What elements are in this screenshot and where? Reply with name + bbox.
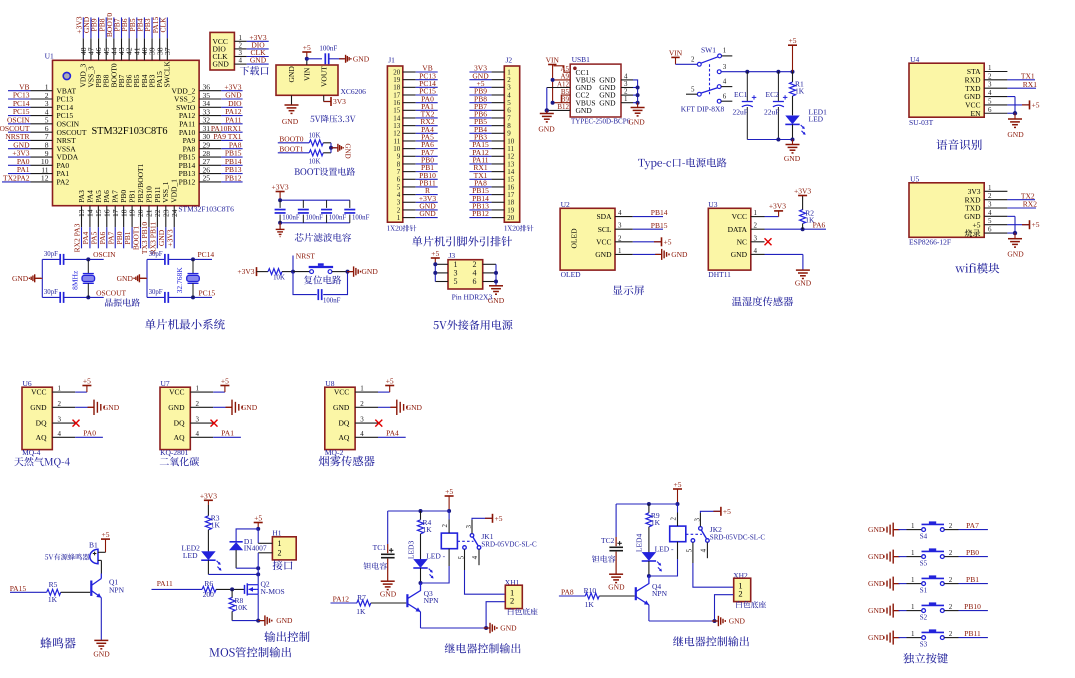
pin 20 of J1 xyxy=(393,68,415,76)
svg-text:MQ-4: MQ-4 xyxy=(22,448,41,457)
ground (U6) xyxy=(75,400,120,415)
crystal 32.768K xyxy=(175,259,199,297)
wire / net label PA12 xyxy=(221,107,242,116)
svg-text:10K: 10K xyxy=(235,603,249,612)
wire / net labels TX2 PA2 (pin 12) xyxy=(2,173,31,182)
svg-text:1K: 1K xyxy=(805,215,815,224)
wire / net label +5 xyxy=(469,79,491,88)
pin VOUT wire to 3V3 xyxy=(324,95,331,101)
svg-text:6: 6 xyxy=(723,92,727,100)
sensor U6 MQ-4 xyxy=(22,379,52,457)
svg-text:VIN: VIN xyxy=(546,56,560,65)
wire / net label RX2 xyxy=(416,117,438,126)
svg-text:+5: +5 xyxy=(221,377,229,386)
wire / net label 3V3 xyxy=(469,64,491,73)
wire emitter to ground (relay 1) xyxy=(421,612,488,628)
wire / net label PB0 xyxy=(944,548,988,557)
pin 13 of J1 xyxy=(393,122,415,130)
ground (key S4) xyxy=(868,523,900,537)
pin 1 of H1 xyxy=(258,542,272,544)
sensor U8 MQ-2 xyxy=(325,379,355,457)
svg-text:20: 20 xyxy=(507,214,515,222)
wire / net label GND xyxy=(8,140,31,149)
svg-text:GND: GND xyxy=(250,56,267,65)
wire / net label PB8 xyxy=(469,94,491,103)
caption 钽电容 (TC1) xyxy=(364,562,387,569)
svg-text:10K: 10K xyxy=(309,158,321,165)
wire / net label PB14 xyxy=(221,157,242,166)
svg-text:BOOT1: BOOT1 xyxy=(279,144,303,153)
pin 3 of USB1 (GND) xyxy=(621,80,633,88)
pin 3 (DQ) of U6 xyxy=(36,416,76,428)
svg-text:PA15: PA15 xyxy=(10,584,27,593)
pin 17 of J1 xyxy=(393,91,415,99)
wire / net label PB4 xyxy=(469,125,491,134)
node LED/Q3 junction xyxy=(419,581,423,585)
svg-text:1K: 1K xyxy=(48,595,58,604)
resistor R5 1K xyxy=(47,580,90,604)
svg-text:+5: +5 xyxy=(674,480,682,489)
pin 14 (PA4) of U1 xyxy=(85,190,94,227)
svg-text:4: 4 xyxy=(754,247,758,255)
pin 2 (GND) of U6 xyxy=(30,400,75,412)
wire / net label +3V3 xyxy=(247,33,269,42)
svg-text:1: 1 xyxy=(911,630,915,638)
svg-text:+5: +5 xyxy=(973,220,981,229)
pin 44 (BOOT0) of U1 xyxy=(109,38,118,87)
buzzer B1 5V active xyxy=(89,541,98,564)
svg-text:1K: 1K xyxy=(585,600,595,609)
capacitor 30pF (top) xyxy=(44,251,64,265)
pin 43 (PB7) of U1 xyxy=(117,38,126,87)
svg-text:GND: GND xyxy=(30,403,47,412)
pin 1 of J2 xyxy=(491,68,511,76)
svg-text:VOUT: VOUT xyxy=(319,66,328,87)
wire / net label +3V3 xyxy=(8,149,31,158)
wire / net label PB12 xyxy=(221,173,242,182)
svg-text:+5: +5 xyxy=(1032,100,1040,109)
caption 下载口 xyxy=(240,66,269,75)
pin 17 of J2 xyxy=(491,191,514,199)
ground (DHT11) xyxy=(795,270,812,287)
pin 2 (RXD) of U5 xyxy=(965,192,1008,204)
ground (U5) xyxy=(1007,233,1024,259)
caption BOOT设置电路 xyxy=(294,167,355,175)
pin 25 (PB12) of U1 xyxy=(179,174,222,187)
wire / net label PA8 xyxy=(469,179,491,188)
wire / net label PA6 xyxy=(416,140,438,149)
svg-text:+5: +5 xyxy=(789,36,797,45)
power port +5 (U8) xyxy=(378,377,394,393)
svg-text:1K: 1K xyxy=(651,518,661,527)
svg-text:GND: GND xyxy=(729,617,746,626)
transistor Q1 NPN xyxy=(91,574,124,598)
caption MOS管控制输出 xyxy=(209,647,291,658)
wire / net label PB14 xyxy=(633,208,668,217)
svg-text:EN: EN xyxy=(971,109,982,118)
svg-text:VCC: VCC xyxy=(596,237,611,246)
svg-text:NPN: NPN xyxy=(109,585,125,594)
svg-text:SRD-05VDC-SL-C: SRD-05VDC-SL-C xyxy=(481,541,537,549)
wire / net label PA10RX1 xyxy=(211,124,243,133)
LED LED2 xyxy=(182,543,222,574)
svg-text:+3V3: +3V3 xyxy=(272,183,289,192)
resistor 10K (BOOT0) xyxy=(309,132,331,146)
power port +5 (U4) xyxy=(1007,100,1039,109)
caption 1X20排针 (J1) xyxy=(387,225,416,231)
resistor R2 1K pullup xyxy=(800,196,815,230)
wire / net label PA12 xyxy=(469,148,491,157)
svg-text:PB0: PB0 xyxy=(966,548,979,557)
wire to key S3 xyxy=(899,630,922,638)
wire / net label PA8 xyxy=(221,140,242,149)
pin 21 (PB10) of U1 xyxy=(144,186,153,227)
wire / net label VB xyxy=(416,64,438,73)
wire emitter to ground xyxy=(100,598,102,641)
wire / net label PB3 xyxy=(469,133,491,142)
svg-text:R5: R5 xyxy=(49,580,58,589)
svg-text:S4: S4 xyxy=(920,532,928,540)
resistor 10K (BOOT1) xyxy=(309,150,331,166)
wire CC2/VBUS B5 B9 xyxy=(551,95,571,105)
pin 38 (PA15) of U1 xyxy=(155,38,164,87)
pin 5 (OSCIN) of U1 xyxy=(31,116,80,129)
svg-text:VCC: VCC xyxy=(334,388,349,397)
svg-text:+5: +5 xyxy=(495,514,503,523)
svg-text:2: 2 xyxy=(691,56,695,64)
svg-text:GND: GND xyxy=(287,66,296,83)
regulator U? XC6206 xyxy=(276,65,366,96)
svg-text:DATA: DATA xyxy=(728,225,748,234)
svg-text:SW1: SW1 xyxy=(701,46,716,55)
svg-text:3: 3 xyxy=(988,81,992,89)
svg-text:3: 3 xyxy=(465,525,473,529)
svg-text:4: 4 xyxy=(360,430,364,438)
svg-text:8MHz: 8MHz xyxy=(70,270,79,290)
wire / net label PB11 xyxy=(944,629,988,638)
svg-text:4: 4 xyxy=(471,555,479,559)
pin 46 (PB9) of U1 xyxy=(94,38,103,87)
svg-text:GND: GND xyxy=(608,583,625,592)
pin 2 of H1 xyxy=(258,552,272,554)
switch SW1 KFT DIP-8X8 xyxy=(669,46,732,114)
wire / net label PB15 xyxy=(469,186,491,195)
svg-text:LED -: LED - xyxy=(655,544,674,553)
svg-text:1: 1 xyxy=(397,214,401,222)
svg-text:100nF: 100nF xyxy=(329,214,347,221)
pin 3 (DQ) of U8 xyxy=(338,416,378,428)
svg-text:JK1: JK1 xyxy=(481,532,493,541)
wire / net label RX1 xyxy=(469,163,491,172)
svg-text:N-MOS: N-MOS xyxy=(261,587,285,596)
wire bottom bus xyxy=(278,221,350,225)
ground (BOOT) xyxy=(331,144,351,159)
wire / net label R xyxy=(416,186,438,195)
wire / net label PB5 xyxy=(128,17,137,38)
ground (relay 2) xyxy=(712,616,746,626)
ground (TC1) xyxy=(380,581,397,598)
wire / net label PB1 xyxy=(416,163,438,172)
pin 6 of J2 xyxy=(491,107,511,115)
svg-text:PA11: PA11 xyxy=(157,579,173,588)
pin 14 of J2 xyxy=(491,168,514,176)
svg-text:12: 12 xyxy=(41,174,49,183)
svg-text:6: 6 xyxy=(988,106,992,114)
connector J2 1X20 header xyxy=(504,56,519,223)
pin 3 of J3 xyxy=(435,272,448,274)
resistor R6 200 xyxy=(202,579,244,599)
svg-text:GND: GND xyxy=(868,525,885,534)
op-amp U1 (STM32F103C8T6 MCU) xyxy=(45,52,234,214)
wire / net label PB12 xyxy=(469,209,491,218)
wire / net label DIO xyxy=(247,40,269,49)
wire / net label PB9 xyxy=(90,17,99,38)
wire +5 to D1 xyxy=(236,529,258,542)
wire / net label PB3 xyxy=(143,17,152,38)
svg-text:+3V3: +3V3 xyxy=(769,202,786,211)
capacitor EC2 22uF xyxy=(764,72,787,140)
wire / net label NRSTR xyxy=(5,132,30,141)
pin 1 (VCC) of U8 xyxy=(334,385,378,397)
svg-text:GND: GND xyxy=(784,154,801,163)
labels JK1 SRD-05VDC-SL-C xyxy=(481,532,537,549)
wire LED2 to drain node xyxy=(208,572,260,576)
ground (reset) xyxy=(347,266,378,276)
svg-text:+3V3: +3V3 xyxy=(200,491,217,500)
svg-text:AQ: AQ xyxy=(36,433,47,442)
pin 12 (PA2) of U1 xyxy=(31,174,70,187)
module U5 ESP8266-12F xyxy=(909,174,984,246)
svg-text:J2: J2 xyxy=(506,56,513,65)
resistor R7 1K xyxy=(356,593,406,616)
capacitor 30pF (bottom) xyxy=(44,289,64,303)
wire / net label PB15 xyxy=(221,149,242,158)
svg-text:10K: 10K xyxy=(273,274,285,281)
svg-text:3: 3 xyxy=(618,222,622,230)
pin 22 (PB11) of U1 xyxy=(153,186,162,227)
svg-text:GND: GND xyxy=(282,117,299,126)
pin 18 of J2 xyxy=(491,199,514,207)
wire source to ground rail xyxy=(232,594,263,622)
power port +5 (J3) xyxy=(431,249,440,264)
svg-text:4: 4 xyxy=(618,209,622,217)
caption 独立按键 xyxy=(903,653,948,663)
svg-text:100nF: 100nF xyxy=(306,214,324,221)
pin 41 (PB5) of U1 xyxy=(132,38,141,87)
wire / net label PB9 xyxy=(469,87,491,96)
wire / net label TX1 xyxy=(469,171,491,180)
pin 16 (PA6) of U1 xyxy=(102,190,111,227)
svg-text:1: 1 xyxy=(618,247,622,255)
svg-text:+3V3: +3V3 xyxy=(794,186,811,195)
svg-text:1K: 1K xyxy=(356,607,366,616)
svg-text:2: 2 xyxy=(510,595,514,605)
wire USB right gnd bus xyxy=(633,80,640,105)
svg-text:TC2: TC2 xyxy=(601,536,615,545)
pin 4 (AQ) of U7 xyxy=(174,430,214,442)
svg-text:GND: GND xyxy=(353,54,370,63)
power port +5 (OLED) xyxy=(633,237,672,246)
svg-text:32.768K: 32.768K xyxy=(175,267,184,294)
svg-text:DQ: DQ xyxy=(36,419,47,428)
ground (U8) xyxy=(378,400,423,415)
power port +3V3 (DHT11) xyxy=(765,202,787,217)
svg-text:EC1: EC1 xyxy=(734,90,748,99)
pin 10 (PA0) of U1 xyxy=(31,157,70,170)
caption 语音识别 xyxy=(936,139,981,150)
svg-text:VCC: VCC xyxy=(31,388,46,397)
resistor R8 10K xyxy=(229,589,248,620)
svg-text:2: 2 xyxy=(988,192,992,200)
svg-text:VCC: VCC xyxy=(732,212,747,221)
svg-text:GND: GND xyxy=(868,633,885,642)
svg-text:GND: GND xyxy=(362,267,379,276)
svg-text:1: 1 xyxy=(723,47,727,55)
wire / net label PC15 xyxy=(416,87,438,96)
wire / net label +3V3 xyxy=(221,82,242,91)
wire / net label BOOT1 xyxy=(132,226,141,250)
connector J1 1X20 header xyxy=(387,56,402,223)
wire / net label PB15 xyxy=(633,221,668,230)
pin 6 of J3 xyxy=(483,281,496,283)
LED LED4 xyxy=(635,534,674,576)
pin 15 (PA5) of U1 xyxy=(94,190,103,227)
pin 24 (VDD_1) of U1 xyxy=(170,179,179,227)
svg-text:+5: +5 xyxy=(386,377,394,386)
pin 3 (TXD) of U5 xyxy=(965,201,1007,213)
pin 11 (PA1) of U1 xyxy=(31,165,70,178)
wire GND B12 junction xyxy=(545,108,571,112)
svg-text:KQ-2801: KQ-2801 xyxy=(160,448,189,457)
wire / net label PC13 xyxy=(416,71,438,80)
svg-text:5: 5 xyxy=(691,85,695,93)
wire GND (DHT11) xyxy=(765,254,803,270)
ground (U7) xyxy=(213,400,258,415)
pin 2 of J2 xyxy=(491,76,511,84)
svg-text:IN4007: IN4007 xyxy=(244,544,267,553)
pin 28 (PB15) of U1 xyxy=(179,149,222,162)
display U2 OLED xyxy=(560,200,615,279)
pin 6 (EN) of U4 xyxy=(971,106,1008,118)
wire / net label BOOT1 xyxy=(278,144,309,153)
svg-text:PB15: PB15 xyxy=(651,221,668,230)
svg-text:STM32F103C8T6: STM32F103C8T6 xyxy=(91,126,167,137)
pin 1 of J1 xyxy=(397,214,416,222)
svg-text:GND: GND xyxy=(595,250,612,259)
caption 5V有源蜂鸣器 xyxy=(45,554,90,561)
ground (key S2) xyxy=(868,604,900,618)
svg-text:30pF: 30pF xyxy=(44,251,58,258)
no-connect X (DQ of U7) xyxy=(211,420,218,427)
svg-text:PB14: PB14 xyxy=(651,208,668,217)
svg-text:3: 3 xyxy=(988,201,992,209)
pin 4 (AQ) of U8 xyxy=(338,430,378,442)
wire / net label PB5 xyxy=(469,117,491,126)
svg-text:LED: LED xyxy=(809,115,824,124)
capacitor 100nF filter #3 xyxy=(321,200,346,223)
power port +3V3 (R2) xyxy=(794,186,811,195)
wire to key S4 xyxy=(899,522,922,530)
caption Type-c口-电源电路 xyxy=(638,158,726,170)
wire / net label PA7 xyxy=(944,521,988,530)
svg-text:CLK: CLK xyxy=(158,17,167,33)
pin 4 (PC15) of U1 xyxy=(31,107,74,120)
pin 3 (NC) of U3 xyxy=(737,234,765,246)
pin 1 (VBAT) of U1 xyxy=(31,83,77,96)
caption 显示屏 xyxy=(613,285,644,295)
svg-text:25: 25 xyxy=(203,174,211,183)
svg-text:XC6206: XC6206 xyxy=(341,87,367,96)
pin VIN wire and junction xyxy=(305,57,322,65)
svg-text:GND: GND xyxy=(671,250,688,259)
svg-text:NC: NC xyxy=(737,237,747,246)
caption 天然气MQ-4 xyxy=(14,457,70,468)
pin 1 (STA) of U4 xyxy=(967,64,1007,76)
pin 30 (PA9) of U1 xyxy=(183,132,222,145)
svg-text:GND: GND xyxy=(406,403,423,412)
wire J3 right bus xyxy=(494,264,498,286)
connector P1 download port xyxy=(210,32,234,70)
wire / net label PA11 xyxy=(469,156,491,165)
pin 3 of J1 xyxy=(397,199,416,207)
power port +5 (U7) xyxy=(213,377,229,393)
pin 1 of download port xyxy=(234,34,246,42)
pin 9 of J2 xyxy=(491,130,511,138)
svg-text:GND: GND xyxy=(213,60,230,69)
pin 15 of J1 xyxy=(393,107,415,115)
labels JK2 SRD-05VDC-SL-C xyxy=(710,525,766,542)
svg-text:1K: 1K xyxy=(211,521,221,530)
ground (regulator) xyxy=(282,105,299,126)
power port +5 (contact JK1) xyxy=(485,514,503,523)
ground (USB right) xyxy=(628,103,645,127)
pin 2 of J3 xyxy=(483,263,496,265)
power port 3V3 xyxy=(324,97,347,106)
svg-text:S3: S3 xyxy=(920,640,928,648)
caption 二氧化碳 xyxy=(160,457,199,466)
wire / net label PB13 xyxy=(469,202,491,211)
svg-text:1: 1 xyxy=(278,539,282,548)
wire / net label PB0 xyxy=(416,156,438,165)
svg-text:2: 2 xyxy=(949,549,953,557)
power port +5 (contact JK2) xyxy=(713,507,731,516)
svg-text:1: 1 xyxy=(911,522,915,530)
svg-text:U5: U5 xyxy=(910,174,919,183)
svg-text:100nF: 100nF xyxy=(323,297,341,304)
pin 12 of J1 xyxy=(393,130,415,138)
svg-text:3: 3 xyxy=(58,416,62,424)
wire / net label PB10 xyxy=(944,602,988,611)
svg-text:1: 1 xyxy=(360,385,364,393)
pin 10 of J1 xyxy=(393,145,415,153)
pin 13 (PA3) of U1 xyxy=(77,190,86,227)
ground (crystal) xyxy=(12,274,42,283)
svg-text:PA8: PA8 xyxy=(561,588,574,597)
svg-text:GND: GND xyxy=(93,650,110,659)
capacitor 100nF (reset) xyxy=(318,289,340,304)
svg-text:GND: GND xyxy=(344,144,352,159)
svg-text:3: 3 xyxy=(693,518,701,522)
pin 7 of J1 xyxy=(397,168,416,176)
wire GND/烧录 bus U5 xyxy=(1007,216,1017,235)
pin 4 (GND) of U5 xyxy=(964,209,1007,221)
wire / net label PB8 xyxy=(97,17,106,38)
caption 烟雾传感器 xyxy=(319,456,375,467)
wire to key S2 xyxy=(899,603,922,611)
svg-text:2: 2 xyxy=(278,549,282,558)
transistor Q3 NPN xyxy=(407,583,439,612)
svg-text:PA4: PA4 xyxy=(386,428,399,437)
